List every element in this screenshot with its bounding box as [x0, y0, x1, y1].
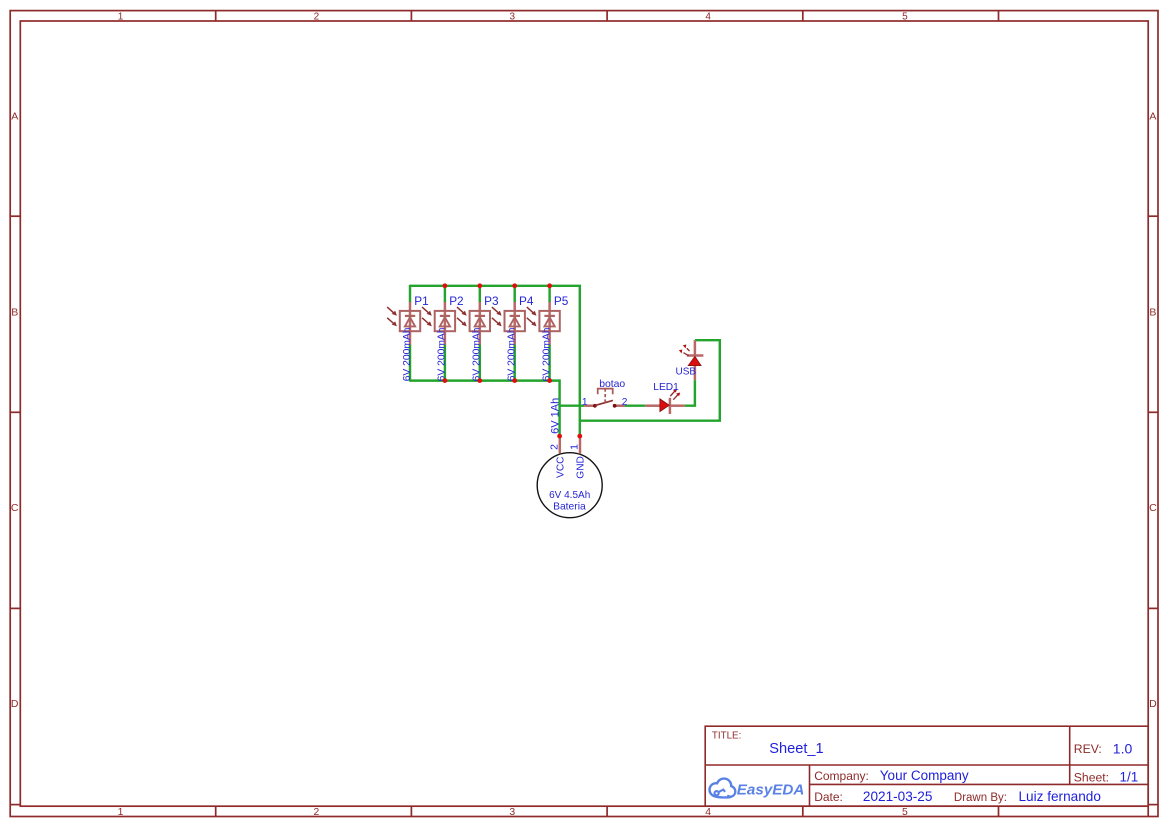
SCHEMATIC — [387, 283, 720, 517]
svg-text:P2: P2 — [449, 294, 463, 308]
wire P2 top — [444, 285, 446, 302]
light arrow 1 P1 — [387, 307, 394, 313]
body box P2 — [435, 311, 455, 331]
svg-text:2: 2 — [314, 11, 320, 22]
svg-text:Your Company: Your Company — [880, 768, 969, 783]
wire switch to LED1 — [625, 404, 646, 406]
svg-text:Sheet:: Sheet: — [1074, 771, 1109, 785]
svg-text:TITLE:: TITLE: — [712, 731, 741, 742]
junction top bus P3 — [477, 283, 482, 288]
solar cell P2 — [422, 285, 464, 382]
wire switch feed — [560, 404, 585, 406]
svg-text:2: 2 — [314, 807, 320, 818]
solar cell P1 — [387, 285, 429, 382]
pin wire P3 — [479, 302, 482, 346]
junction VCC node — [557, 434, 562, 439]
svg-text:Sheet_1: Sheet_1 — [769, 741, 823, 757]
svg-text:P4: P4 — [519, 294, 534, 308]
svg-text:1: 1 — [569, 444, 581, 450]
svg-text:2021-03-25: 2021-03-25 — [863, 789, 933, 804]
switch pin 2 wire — [615, 404, 625, 407]
diode bar P5 — [544, 315, 555, 317]
pin wire P2 — [444, 302, 447, 346]
svg-text:P3: P3 — [484, 294, 499, 308]
junction bottom bus P4 — [512, 378, 517, 383]
svg-text:Date:: Date: — [814, 790, 843, 804]
svg-text:6V 200mAh: 6V 200mAh — [402, 327, 413, 381]
switch cap — [598, 389, 613, 395]
junction bottom bus P3 — [477, 378, 482, 383]
pin wire P4 — [513, 302, 516, 346]
svg-text:2: 2 — [548, 444, 560, 450]
svg-text:USB: USB — [676, 366, 697, 377]
svg-text:A: A — [1149, 110, 1156, 122]
diode bar P2 — [440, 315, 450, 317]
solar cell P4 — [492, 285, 534, 382]
svg-text:VCC: VCC — [556, 456, 567, 478]
LED1 emission arrow 2 — [673, 394, 678, 400]
LED1 emission arrow 1 — [670, 391, 675, 396]
junction bottom bus P5 — [547, 378, 552, 383]
light arrow 2 P5 — [527, 318, 534, 324]
svg-text:B: B — [1149, 306, 1156, 318]
switch contact 2 — [613, 404, 617, 408]
svg-text:6V 200mAh: 6V 200mAh — [437, 327, 448, 381]
switch pin 1 wire — [584, 404, 595, 407]
LED1 cathode bar — [669, 398, 672, 414]
svg-text:P5: P5 — [554, 294, 569, 308]
easyeda logo — [710, 779, 805, 799]
light arrow 2 P4 — [492, 318, 499, 324]
svg-text:1: 1 — [118, 807, 124, 818]
wire bottom bus — [410, 381, 560, 437]
svg-text:Company:: Company: — [814, 769, 869, 783]
TITLE BLOCK — [705, 726, 1148, 806]
svg-text:EasyEDA: EasyEDA — [737, 782, 805, 799]
wire LED1 to USB — [685, 380, 695, 406]
USB emission arrow 1 — [684, 353, 689, 356]
wire P2 bottom — [444, 345, 446, 382]
wire P5 bottom — [548, 345, 550, 382]
USB LED cathode bar — [687, 354, 704, 357]
wire P1 bottom — [409, 345, 411, 382]
diode triangle P3 — [475, 317, 485, 326]
solar cell P5 — [527, 285, 569, 382]
svg-text:LED1: LED1 — [653, 382, 679, 393]
svg-text:Drawn By:: Drawn By: — [954, 792, 1007, 804]
body box P5 — [539, 311, 559, 331]
USB LED pin upper — [694, 340, 697, 355]
pin 1 GND wire — [579, 436, 582, 454]
USB LED pin lower — [694, 366, 697, 381]
light arrow 1 P4 — [492, 307, 499, 313]
svg-text:6V 200mAh: 6V 200mAh — [507, 327, 518, 381]
svg-text:6V 200mAh: 6V 200mAh — [472, 327, 483, 381]
light arrow 2 P1 — [387, 318, 394, 324]
light arrow 1 P5 — [527, 307, 534, 313]
svg-text:2: 2 — [622, 397, 628, 408]
diode triangle P5 — [545, 317, 555, 326]
wire USB return to GND — [580, 340, 720, 421]
diode triangle P2 — [440, 317, 450, 326]
light arrow 1 P3 — [457, 307, 464, 313]
svg-text:1: 1 — [118, 11, 124, 22]
wire P3 top — [479, 285, 481, 302]
light arrow 2 P3 — [457, 318, 464, 324]
wire P4 bottom — [513, 345, 515, 382]
svg-text:5: 5 — [902, 11, 908, 22]
svg-text:3: 3 — [509, 807, 515, 818]
svg-text:4: 4 — [705, 807, 711, 818]
wire P1 top — [409, 285, 411, 302]
diode triangle P1 — [405, 317, 415, 326]
battery 6V 4.5Ah — [537, 398, 602, 518]
svg-text:REV:: REV: — [1074, 742, 1102, 756]
svg-text:6V 200mAh: 6V 200mAh — [541, 327, 552, 381]
diode bar P4 — [510, 315, 520, 317]
LED USB — [676, 340, 704, 380]
body box P1 — [400, 311, 420, 331]
junction bottom bus P2 — [443, 378, 448, 383]
svg-text:1.0: 1.0 — [1113, 740, 1133, 756]
svg-text:1/1: 1/1 — [1120, 770, 1139, 785]
body box P3 — [470, 311, 490, 331]
svg-text:6V 1Ah: 6V 1Ah — [549, 398, 561, 434]
LED LED1 — [645, 382, 685, 414]
svg-text:3: 3 — [510, 11, 516, 22]
svg-text:C: C — [11, 502, 19, 514]
svg-text:Bateria: Bateria — [553, 502, 586, 513]
diode bar P3 — [475, 315, 485, 317]
junction GND node — [577, 434, 582, 439]
wire P4 top — [513, 285, 515, 302]
pin wire P1 — [409, 302, 412, 346]
svg-text:1: 1 — [582, 397, 588, 408]
light arrow 1 P2 — [422, 307, 429, 313]
LED1 triangle — [660, 399, 669, 412]
svg-text:GND: GND — [576, 456, 587, 479]
pin 2 VCC wire — [559, 436, 562, 453]
LED1 anode pin — [645, 404, 660, 407]
wire top bus — [410, 286, 580, 436]
switch lever — [595, 400, 613, 405]
body box P4 — [505, 311, 525, 331]
LED1 cathode pin — [670, 404, 685, 407]
junction top bus P2 — [443, 283, 448, 288]
svg-text:B: B — [11, 306, 18, 318]
svg-text:D: D — [11, 698, 19, 710]
svg-text:P1: P1 — [414, 294, 428, 308]
svg-text:Luiz fernando: Luiz fernando — [1019, 789, 1101, 804]
wire P5 top — [548, 285, 550, 302]
svg-text:4: 4 — [705, 11, 711, 22]
solar cell P3 — [457, 285, 499, 382]
USB emission arrow 2 — [687, 348, 690, 351]
light arrow 2 P2 — [422, 318, 429, 324]
battery body circle — [537, 453, 602, 518]
svg-text:6V 4.5Ah: 6V 4.5Ah — [549, 490, 590, 501]
junction top bus P5 — [547, 283, 552, 288]
switch stem — [604, 389, 606, 403]
svg-text:A: A — [11, 110, 18, 122]
svg-text:5: 5 — [902, 807, 908, 818]
junction top bus P4 — [512, 283, 517, 288]
svg-text:botao: botao — [599, 379, 625, 390]
switch contact 1 — [593, 404, 597, 408]
svg-text:C: C — [1149, 502, 1157, 514]
pin wire P5 — [548, 302, 551, 346]
svg-text:D: D — [1149, 698, 1157, 710]
diode bar P1 — [405, 315, 415, 317]
switch botao — [582, 379, 628, 408]
USB LED triangle — [688, 356, 701, 365]
wire P3 bottom — [479, 345, 481, 382]
diode triangle P4 — [510, 317, 520, 326]
